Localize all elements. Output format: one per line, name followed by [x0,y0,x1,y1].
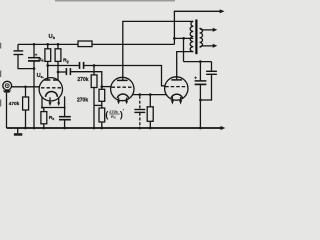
V3 plate wire to primary bottom [177,52,194,80]
resistor Rk2 [149,95,151,107]
resistor R270a [93,66,95,75]
node filter caps [33,67,36,70]
scan artifact top edge [55,0,175,2]
V3 grid dashes [165,86,188,88]
V3 heater arrows [172,97,180,102]
B+ arrow line [174,11,220,44]
node screen [57,71,60,74]
wire input to grid [12,86,40,88]
V2 plate wire [123,21,194,80]
transformer T1 secondary [200,28,203,47]
V1 cathode arc [46,91,58,96]
wire B to filter node [183,38,185,61]
V1 grid dashes [41,87,62,89]
capacitor C4 coupling lower [65,68,67,75]
transformer core [195,20,197,55]
capacitor C5 electrolytic screen [199,62,201,81]
node caps bus [33,127,36,130]
wire ground bus [7,127,222,129]
wire screen into tube [57,72,59,80]
V1 envelope legs [42,96,65,107]
tube V3 [165,77,188,100]
V2 plate bar [117,79,128,81]
wire center tap link [174,37,193,39]
node R270a bus [93,127,96,130]
wire C4 to grid2 [71,72,102,87]
V2 cathode arc [117,94,128,98]
capacitor C1 (filter) [17,44,19,50]
node input [24,85,27,88]
node plate1 [46,64,49,67]
tube V1 [39,78,62,101]
wire grid2 [102,86,111,88]
wire C3 to grid3 [84,66,165,86]
resistor Ra [46,43,49,46]
node R270a top [93,64,96,67]
V2 grid dashes [112,86,134,88]
capacitor C3 coupling top [79,62,81,69]
V1 plate bar [44,79,50,81]
resistor RG bottom [99,108,105,122]
ground bus arrowhead [221,126,226,130]
V3 cathode arc [171,94,182,98]
node Rk2 [149,93,152,96]
V1 heater arrows [50,97,59,104]
wire B+ rail [18,43,174,45]
resistor RG top [101,87,103,90]
capacitor Ck [64,108,66,117]
capacitor C6 [211,62,213,71]
wire caps to bus [33,69,35,128]
wire cathode2 to cathode3 [133,94,167,96]
wire link RG [94,104,102,106]
rail resistor Rd [78,41,92,47]
node filter right [199,60,202,63]
node RG bus [100,127,103,130]
wire plate1 down [47,66,49,80]
ground symbol [17,128,19,133]
resistor Rg (screen) [57,43,60,46]
wire jack to bus [6,93,8,128]
wire screen to C4 [58,71,66,73]
svg-text:270k: 270k [77,97,88,103]
node grid2 [100,85,103,88]
node rail top [173,37,176,40]
resistor 470k [25,87,27,97]
transformer T1 primary [190,21,193,51]
V3 plate bar [171,79,182,81]
secondary top arrow [200,28,214,30]
jack ground flag [3,91,11,93]
V2 heater arrows [119,98,127,103]
node Ck2 [138,93,141,96]
label (270k/RG)* [105,108,124,121]
resistor Rk [43,108,45,112]
capacitor Ck2 dashed leads [139,96,141,109]
secondary bottom arrow [200,46,214,47]
scan artifact left edge [0,43,2,107]
wire plate1 to C3 [48,65,79,67]
capacitor C2 electrolytic [33,44,35,57]
svg-text:470k: 470k [9,101,20,106]
tube V2 [111,77,134,100]
svg-text:270k: 270k [77,77,88,83]
V1 bottom bar [42,107,65,109]
svg-text:+: + [194,75,197,80]
node 470k bus [24,127,27,130]
input jack J1 [3,81,12,90]
